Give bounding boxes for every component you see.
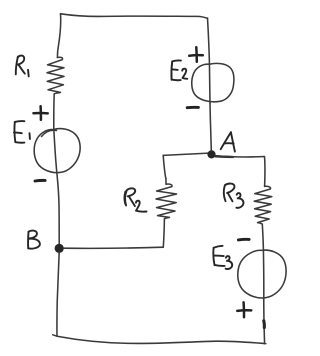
node A: [207, 150, 215, 158]
resistor R1: [47, 57, 64, 94]
wire A to R3 top: [215, 156, 265, 187]
wire blob right lower: [262, 321, 266, 328]
resistor R3: [254, 186, 272, 224]
source E1 circle: [34, 129, 80, 173]
plus sign E2: [189, 47, 203, 61]
wire through E3: [263, 250, 264, 344]
node B: [55, 244, 64, 253]
minus sign E1: [35, 179, 45, 183]
label B: [28, 231, 40, 249]
wire top to E2: [208, 18, 211, 103]
resistor R2: [156, 179, 177, 219]
plus sign E1: [34, 106, 48, 120]
wire bottom horizontal: [57, 336, 266, 343]
plus sign E3: [237, 302, 251, 317]
label R3: [224, 184, 244, 208]
wire R2 top vertical: [163, 155, 166, 178]
wire R1 to E1: [53, 94, 55, 129]
wire R2 bottom vertical: [163, 219, 164, 247]
wire R3 to E3: [262, 224, 263, 249]
label E1: [14, 121, 30, 143]
label R1: [16, 56, 29, 77]
source E2 circle: [192, 63, 234, 101]
wire B to bottom: [53, 252, 59, 336]
wire A to R2: [163, 153, 208, 155]
label E3: [213, 246, 232, 269]
label A: [221, 132, 235, 151]
label E2: [171, 60, 187, 80]
wire E2 bottom to A: [210, 103, 211, 150]
wire retrace right of node A: [216, 155, 234, 158]
label R2: [124, 188, 146, 211]
wire left vertical upper: [57, 14, 60, 58]
wire through E1: [54, 129, 59, 245]
source E1 inner arc: [42, 130, 57, 136]
wire B to R2 bottom: [64, 247, 164, 248]
wire top horizontal: [61, 14, 208, 19]
source E3 circle: [238, 250, 286, 298]
minus sign E3: [238, 238, 249, 241]
minus sign E2: [187, 106, 198, 109]
